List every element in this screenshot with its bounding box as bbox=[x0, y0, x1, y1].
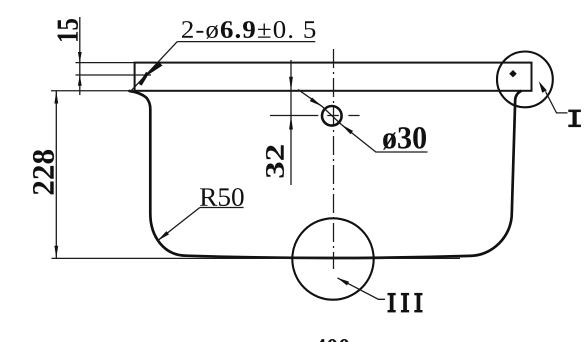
text 2-d6.9 +-0.5 bbox=[182, 21, 315, 39]
leader for 2-d6.9: underline bbox=[177, 41, 315, 43]
leader arrow on flange bbox=[145, 62, 163, 77]
d30 upper arrow bbox=[310, 98, 322, 107]
text III bbox=[388, 293, 423, 313]
dim 15: extension line top bbox=[76, 62, 135, 64]
R50 leader bbox=[158, 208, 200, 241]
hole circle (d30) bbox=[322, 106, 342, 126]
dim 228: dimension line bbox=[55, 91, 57, 259]
leader III bbox=[337, 278, 385, 299]
dim 228: extension line bottom bbox=[52, 257, 461, 259]
hole centerline horizontal bbox=[270, 115, 360, 117]
hole mark slash in flange bbox=[140, 73, 147, 85]
dim 228: arrow down bbox=[54, 246, 58, 258]
detail circle I bbox=[497, 52, 553, 108]
vertical centerline (dash-dot) bbox=[333, 49, 335, 269]
d30 leader upper-left segment bbox=[298, 90, 341, 125]
dim 15: text bbox=[57, 19, 78, 41]
partial bottom dimension 400 bbox=[315, 339, 350, 342]
diamond mark in circle I bbox=[509, 70, 517, 77]
dim 15: extension line bottom bbox=[76, 74, 152, 76]
R50 underline bbox=[200, 207, 244, 209]
dim 32: arrow up bbox=[289, 116, 293, 130]
basin outline bbox=[130, 91, 521, 258]
arrow I bbox=[539, 81, 547, 93]
dim 228: arrow up bbox=[54, 91, 58, 104]
dim 32: arrow down bbox=[289, 77, 293, 91]
dim 32: dimension line bbox=[290, 60, 292, 185]
dim 32: text bbox=[266, 145, 284, 177]
leader I bbox=[546, 92, 568, 113]
dim 15: arrow up bbox=[78, 75, 82, 86]
detail circle III bbox=[292, 218, 373, 299]
text d30 bbox=[383, 127, 426, 150]
dim 15: dimension line bbox=[79, 17, 81, 95]
text R50 bbox=[200, 188, 244, 206]
d30 lower arrow bbox=[341, 125, 353, 135]
arrow III bbox=[337, 278, 349, 286]
dim 228: extension line top bbox=[51, 90, 134, 92]
dim 228: text bbox=[33, 150, 54, 194]
d30 leader lower-right segment bbox=[341, 125, 427, 153]
leader for 2-d6.9: slanted line bbox=[132, 42, 178, 91]
dim 15: arrow down bbox=[78, 52, 82, 63]
R50 arrow bbox=[158, 231, 170, 241]
flange (top bar cross-section) bbox=[135, 63, 532, 91]
text I bbox=[568, 110, 581, 128]
